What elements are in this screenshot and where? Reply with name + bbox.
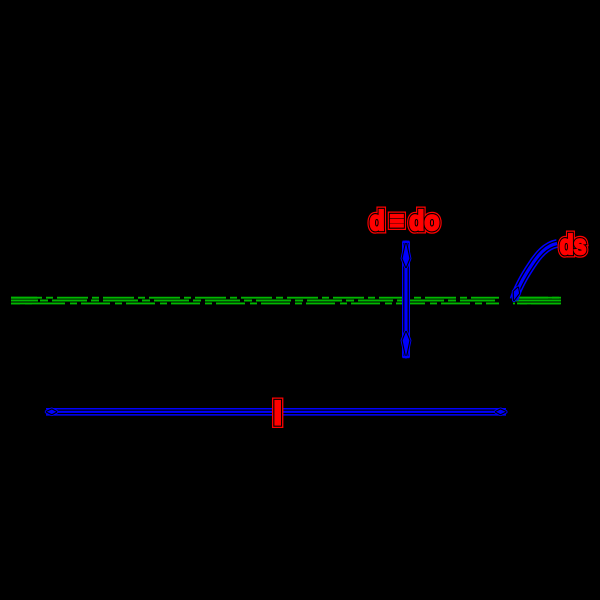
svg-text:ds: ds <box>560 229 587 260</box>
svg-text:l: l <box>273 396 282 432</box>
svg-text:d ≡ do: d ≡ do <box>370 205 440 236</box>
